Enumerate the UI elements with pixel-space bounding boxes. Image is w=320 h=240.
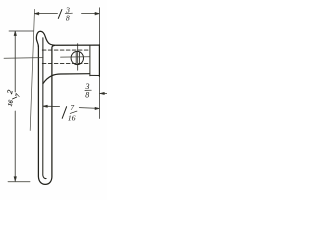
svg-text:16: 16 [68, 113, 76, 122]
svg-text:7: 7 [14, 92, 22, 97]
hidden dashed line lower [42, 62, 89, 64]
part: right end step [89, 45, 91, 75]
svg-text:8: 8 [85, 90, 89, 99]
left dim: vertical dimension line with arrows [14, 31, 17, 181]
part: bar left edge with bottom U and right edge flare [38, 45, 54, 184]
extension line left of top dim (long, slightly slanted) [30, 9, 34, 130]
dimension 3/8 right-side arrow from edge [100, 92, 107, 94]
svg-text:2: 2 [5, 89, 15, 95]
dimension line 1 7/16 (middle) [43, 105, 99, 110]
svg-text:7: 7 [70, 103, 74, 112]
cotter slot right side [79, 52, 81, 64]
hole vertical centerline [77, 44, 79, 71]
svg-text:16: 16 [7, 99, 15, 107]
dimension line 1 3/8 (top) [35, 12, 100, 15]
part: top dome / bell [36, 31, 99, 46]
cotter slot left side [75, 52, 77, 64]
extension line right x99.4 [98, 8, 100, 119]
part: bottom bell into arm bottom edge [43, 74, 90, 84]
rotated dim text 2 7/16 (left) [5, 89, 22, 107]
text 1 7/16 [62, 103, 77, 123]
text 1 3/8 [58, 6, 72, 23]
horizontal centerline [4, 57, 89, 59]
dimension 3/8 (right) text [85, 82, 92, 99]
left dim: top extension line [9, 30, 33, 32]
part: inner strap line [43, 38, 46, 179]
left dim: bottom extension line [8, 181, 30, 183]
part: right edge (darker overdraw on ext line) [98, 45, 100, 77]
hidden dashed line upper [42, 49, 89, 51]
hole circle [71, 51, 83, 64]
svg-text:8: 8 [66, 14, 70, 23]
